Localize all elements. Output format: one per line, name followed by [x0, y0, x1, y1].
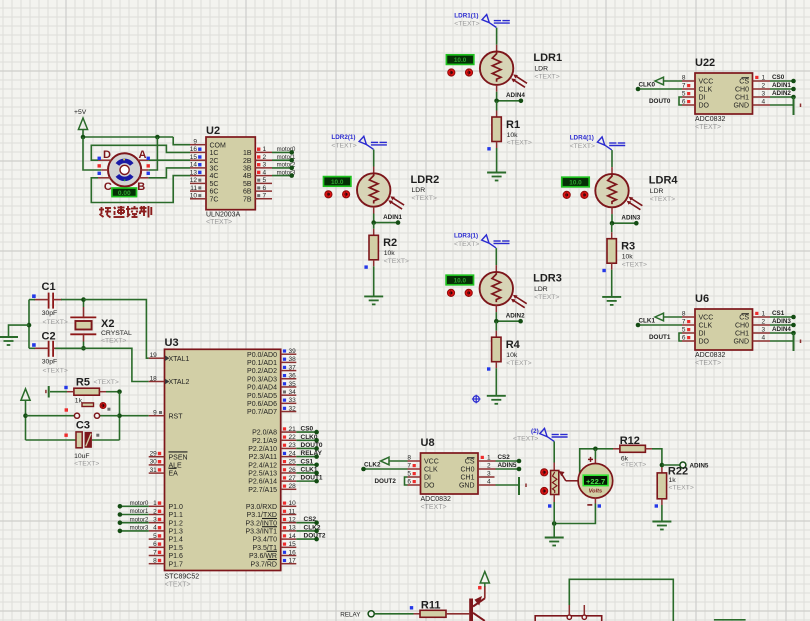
- voltmeter minus sign: [587, 504, 592, 506]
- svg-text:CLK: CLK: [699, 87, 713, 94]
- svg-text:<TEXT>: <TEXT>: [101, 337, 126, 344]
- svg-text:38: 38: [289, 356, 297, 363]
- net label motor1 at U3: [130, 509, 149, 515]
- C2 value 30pF: [42, 359, 58, 366]
- C3 text placeholder: [74, 461, 99, 468]
- svg-text:LDR1: LDR1: [533, 52, 562, 64]
- resistor R3: [607, 239, 616, 264]
- svg-text:26: 26: [289, 467, 297, 474]
- svg-text:5: 5: [153, 533, 157, 540]
- svg-text:36: 36: [289, 373, 297, 380]
- svg-text:1: 1: [153, 500, 157, 507]
- svg-text:ADC0832: ADC0832: [695, 116, 725, 123]
- net label DOUT0 at U3: [301, 442, 323, 449]
- wire U2 4B to net motor3: [272, 175, 292, 177]
- wire +5V to motor left center-tap: [83, 137, 101, 170]
- label U6: [695, 293, 709, 305]
- wire U2 3B to net motor2: [272, 167, 292, 169]
- svg-text:<TEXT>: <TEXT>: [331, 142, 356, 149]
- svg-text:LDR3(1): LDR3(1): [454, 233, 478, 240]
- U8 left pin squares: [413, 464, 416, 483]
- chip U3 STC89C52 body: [165, 349, 281, 570]
- wire node ADIN2: [496, 320, 520, 322]
- wire U3 P2.3 to net RELAY: [296, 456, 316, 458]
- svg-text:1: 1: [762, 75, 766, 82]
- transistor Q1: [469, 586, 485, 621]
- label U2: [206, 125, 220, 137]
- LDR3 type label: [534, 286, 548, 293]
- C2 blue square: [32, 343, 36, 347]
- svg-text:CS1: CS1: [772, 310, 785, 317]
- wire R11 to Q1 base: [446, 613, 469, 615]
- R3 blue square: [602, 269, 605, 272]
- svg-text:CLK0: CLK0: [639, 82, 656, 89]
- LDR2 text placeholder: [412, 195, 437, 202]
- label R4: [506, 339, 521, 351]
- wire U3 P2.6 to net DOUT1: [296, 480, 316, 482]
- wire motor C phase to U2 4C: [91, 176, 190, 203]
- svg-text:5C: 5C: [210, 181, 219, 188]
- svg-text:34: 34: [289, 389, 297, 396]
- svg-text:CH0: CH0: [460, 467, 474, 474]
- wire U3 P3.2 to net CS2: [296, 522, 316, 524]
- R4 blue square: [487, 367, 490, 370]
- resistor R1: [492, 117, 501, 142]
- svg-text:CS: CS: [739, 79, 749, 86]
- label LDR1: [533, 52, 562, 64]
- svg-text:R1: R1: [506, 119, 520, 131]
- svg-text:LDR: LDR: [534, 65, 548, 72]
- U2 left pin stubs: [190, 145, 206, 199]
- wire rail to U2 COM pin 9: [173, 137, 190, 145]
- wire U3 P2.2 to net DOUT0: [296, 447, 316, 449]
- probe text placeholder LDR2: [331, 142, 356, 149]
- svg-text:P3.3/INT1: P3.3/INT1: [245, 529, 277, 536]
- resistor R4: [492, 337, 501, 362]
- U3 left pin squares: [158, 411, 162, 562]
- svg-text:PSEN: PSEN: [169, 454, 188, 461]
- U8 pin 1 square: [481, 456, 484, 459]
- svg-text:5: 5: [682, 91, 686, 98]
- net label CS2: [498, 454, 511, 461]
- push button reset: [26, 403, 120, 418]
- svg-text:33: 33: [289, 397, 297, 404]
- RV1 wiper arrow: [559, 471, 580, 481]
- svg-text:13: 13: [190, 169, 198, 176]
- svg-text:39: 39: [289, 348, 297, 355]
- svg-text:25: 25: [289, 459, 297, 466]
- U6 text placeholder: [695, 360, 721, 367]
- wire to ADIN5 terminal: [662, 464, 680, 466]
- junction pot bottom: [552, 521, 557, 526]
- ground under R22: [652, 522, 671, 530]
- net label ADIN4: [506, 92, 525, 99]
- svg-text:LDR1(1): LDR1(1): [454, 12, 478, 19]
- svg-text:DOUT1: DOUT1: [301, 475, 323, 482]
- svg-text:10.0: 10.0: [454, 278, 467, 285]
- svg-text:Volts: Volts: [589, 489, 602, 495]
- wire U8 DI-DO loop net DOUT2: [405, 477, 408, 485]
- svg-text:LDR: LDR: [412, 187, 426, 194]
- wire R4 to ground: [495, 362, 497, 396]
- U3 XTAL clock markers: [165, 355, 170, 384]
- LDR 2 photoresistor: [357, 173, 390, 206]
- wire to resistor R2: [373, 223, 375, 236]
- svg-text:16: 16: [190, 146, 198, 153]
- svg-text:VCC: VCC: [699, 315, 714, 322]
- net label motor2: [277, 163, 296, 169]
- svg-text:C3: C3: [76, 420, 90, 432]
- net label RELAY at U3: [301, 450, 323, 457]
- svg-text:R5: R5: [76, 377, 90, 389]
- wire net CS1: [770, 316, 794, 318]
- U8 right pin stubs: [478, 461, 496, 485]
- wire XTAL2 net: [55, 348, 149, 381]
- C3 value 10uF: [74, 453, 90, 460]
- svg-text:U8: U8: [421, 437, 435, 449]
- R3 value: [622, 254, 634, 261]
- R5 text placeholder: [94, 379, 119, 386]
- svg-text:18: 18: [150, 375, 158, 382]
- wire to resistor R1: [496, 101, 498, 117]
- wire node ADIN3: [612, 222, 636, 224]
- ground under R1: [487, 173, 506, 181]
- U6 left pin numbers: [682, 311, 686, 342]
- wire R1 to ground: [496, 142, 498, 173]
- U6 left pin squares: [687, 320, 690, 339]
- RV1 adjust buttons: [541, 469, 548, 495]
- junction net CS2 at U3: [314, 520, 319, 525]
- origin marker near LDR3 ground: [472, 395, 481, 404]
- label U8: [421, 437, 435, 449]
- wire U8 GND: [496, 484, 520, 486]
- wire probe to LDR3: [495, 248, 497, 272]
- svg-text:GND: GND: [733, 103, 749, 110]
- wire net ADIN4: [770, 332, 794, 334]
- LDR1 text placeholder: [534, 73, 559, 80]
- wire bar to R5: [50, 391, 74, 393]
- U6 right pin names: [733, 314, 749, 346]
- wire U3 P2.0 to net CS0: [296, 431, 316, 433]
- svg-text:P0.3/AD3: P0.3/AD3: [247, 376, 277, 383]
- U3 right pin stubs: [281, 354, 297, 564]
- junction motor3 at U3: [118, 529, 123, 534]
- svg-text:ADIN2: ADIN2: [506, 313, 525, 320]
- svg-text:1B: 1B: [243, 150, 252, 157]
- svg-text:10k: 10k: [622, 254, 634, 261]
- svg-text:4: 4: [263, 169, 267, 176]
- svg-text:RELAY: RELAY: [340, 612, 361, 619]
- svg-text:1: 1: [263, 146, 267, 153]
- svg-text:U3: U3: [165, 337, 179, 349]
- net label CS2 at U3: [304, 516, 317, 523]
- svg-text:10k: 10k: [506, 352, 518, 359]
- svg-text:CLK2: CLK2: [364, 462, 381, 469]
- probe LDR2(1): [359, 136, 387, 149]
- wire voltmeter top: [594, 449, 596, 465]
- label ADC0832 U22: [695, 116, 725, 123]
- svg-text:P3.7/RD: P3.7/RD: [251, 561, 277, 568]
- label C2: [42, 331, 56, 343]
- U3 right pin names: [245, 352, 277, 569]
- svg-text:C2: C2: [42, 331, 56, 343]
- LDR1 type label: [534, 65, 548, 72]
- svg-text:4B: 4B: [243, 173, 252, 180]
- label LDR3: [533, 273, 562, 285]
- probe (2): [540, 428, 568, 441]
- R4 text placeholder: [506, 360, 531, 367]
- svg-text:<TEXT>: <TEXT>: [43, 319, 68, 326]
- capacitor C2: [29, 341, 84, 357]
- R1 blue square: [487, 147, 490, 150]
- net label CLK1 at U3: [301, 466, 318, 473]
- wire probe to LDR2: [373, 150, 375, 174]
- svg-text:2B: 2B: [243, 158, 252, 165]
- LDR4 light arrows: [627, 197, 643, 210]
- label C1: [42, 281, 56, 293]
- R1 value: [507, 132, 519, 139]
- LDR3 light arrows: [511, 295, 527, 308]
- C3 squares: [64, 434, 99, 437]
- wire LDR3 to node ADIN2: [495, 305, 497, 321]
- R12 text placeholder: [621, 462, 646, 469]
- resistor R2: [369, 235, 378, 259]
- junction CLK0: [636, 87, 641, 92]
- svg-text:6: 6: [407, 479, 411, 486]
- junction CLK2: [361, 467, 366, 472]
- svg-text:RST: RST: [169, 413, 184, 420]
- svg-text:6C: 6C: [210, 189, 219, 196]
- svg-text:DO: DO: [424, 483, 435, 490]
- svg-text:P2.0/A8: P2.0/A8: [252, 430, 277, 437]
- svg-text:CH1: CH1: [735, 331, 749, 338]
- U22 right pin numbers: [762, 75, 766, 106]
- wire net ADIN5: [496, 468, 520, 470]
- svg-text:<TEXT>: <TEXT>: [621, 462, 646, 469]
- junction X2 top: [81, 297, 86, 302]
- svg-text:2: 2: [263, 154, 267, 161]
- junction ADIN2 left: [494, 319, 499, 324]
- label LDR3(1): [454, 233, 478, 240]
- svg-text:P1.2: P1.2: [169, 520, 184, 527]
- wire U8 VCC: [389, 460, 408, 462]
- svg-text:P0.6/AD6: P0.6/AD6: [247, 401, 277, 408]
- junction reset left: [23, 413, 28, 418]
- wire U3 P3.3 to net CLK2: [296, 530, 316, 532]
- svg-text:35: 35: [289, 381, 297, 388]
- wire U22 DI-DO loop net DOUT0: [679, 97, 682, 105]
- label U3: [165, 337, 179, 349]
- U22 left pin numbers: [682, 75, 686, 106]
- net label CLK1: [639, 318, 656, 325]
- svg-text:A: A: [139, 149, 147, 161]
- net label ADIN5 right: [690, 463, 709, 470]
- ground under potentiometer: [545, 538, 564, 546]
- LDR1 value display 10.0: [446, 55, 473, 65]
- svg-text:2: 2: [762, 319, 766, 326]
- net label ADIN2: [772, 90, 791, 97]
- svg-text:12: 12: [289, 517, 297, 524]
- label 转速控制 (speed control): [99, 206, 151, 218]
- svg-text:3: 3: [762, 327, 766, 334]
- svg-text:P0.7/AD7: P0.7/AD7: [247, 409, 277, 416]
- svg-text:ADIN5: ADIN5: [690, 463, 709, 470]
- svg-text:ADIN4: ADIN4: [772, 326, 791, 333]
- svg-text:<TEXT>: <TEXT>: [534, 294, 559, 301]
- svg-text:7B: 7B: [243, 196, 252, 203]
- junction RST node: [117, 413, 122, 418]
- R22 value 1k: [669, 477, 677, 484]
- svg-text:21: 21: [289, 426, 297, 433]
- wire R2 to ground: [373, 260, 375, 297]
- svg-text:COM: COM: [210, 142, 227, 149]
- wire U3 P3.4 to net DOUT2: [296, 538, 316, 540]
- svg-text:2C: 2C: [210, 158, 219, 165]
- R3 text placeholder: [622, 261, 647, 268]
- svg-text:10k: 10k: [384, 250, 396, 257]
- svg-text:motor0: motor0: [130, 501, 149, 507]
- svg-text:29: 29: [150, 451, 158, 458]
- R2 value: [384, 250, 396, 257]
- svg-text:14: 14: [289, 533, 297, 540]
- svg-text:ADIN5: ADIN5: [498, 462, 517, 469]
- power arrow at Q1 collector: [480, 572, 489, 587]
- wire LDR1 to node ADIN4: [496, 85, 498, 101]
- wire net CS0: [770, 80, 794, 82]
- chip U6 ADC0832 body: [695, 309, 753, 350]
- svg-text:P0.0/AD0: P0.0/AD0: [247, 352, 277, 359]
- label R1: [506, 119, 520, 131]
- svg-text:<TEXT>: <TEXT>: [507, 140, 532, 147]
- svg-text:GND: GND: [733, 339, 749, 346]
- wire motor A phase to U2 2C: [148, 159, 190, 161]
- wire net CS2: [496, 460, 520, 462]
- probe LDR1(1): [482, 15, 510, 28]
- svg-text:CH1: CH1: [460, 475, 474, 482]
- junction net CLK1 at U3: [314, 471, 319, 476]
- svg-text:ADIN3: ADIN3: [621, 215, 640, 222]
- label U22: [695, 57, 715, 69]
- svg-text:8: 8: [682, 311, 686, 318]
- junction CS2: [517, 459, 522, 464]
- terminal RELAY: [368, 611, 374, 617]
- svg-text:<TEXT>: <TEXT>: [506, 360, 531, 367]
- junction ADIN4 right: [519, 99, 524, 104]
- U8 left pin stubs: [408, 461, 421, 485]
- svg-text:P2.7/A15: P2.7/A15: [248, 487, 277, 494]
- net label ADIN1: [772, 82, 791, 89]
- terminal ADIN5: [680, 462, 686, 468]
- svg-text:13: 13: [289, 525, 297, 532]
- svg-text:D: D: [103, 149, 111, 161]
- svg-text:U6: U6: [695, 293, 709, 305]
- wire probe to LDR4: [611, 150, 613, 174]
- net label DOUT1 at U3: [301, 475, 323, 482]
- U6 VCC arrow terminal: [655, 313, 664, 321]
- svg-text:5: 5: [682, 327, 686, 334]
- svg-text:DI: DI: [699, 95, 706, 102]
- wire R3 to ground: [611, 263, 613, 297]
- svg-text:P1.7: P1.7: [169, 561, 184, 568]
- svg-text:CS: CS: [739, 315, 749, 322]
- svg-text:16: 16: [289, 549, 297, 556]
- resistor R5: [74, 388, 100, 395]
- svg-text:2: 2: [487, 463, 491, 470]
- svg-text:P1.6: P1.6: [169, 553, 184, 560]
- svg-text:VCC: VCC: [424, 459, 439, 466]
- junction net DOUT0 at U3: [314, 446, 319, 451]
- svg-text:3C: 3C: [210, 166, 219, 173]
- wire voltmeter bottom: [554, 498, 595, 523]
- U22 pin 1 square: [755, 76, 758, 79]
- net label motor2 at U3: [130, 517, 149, 523]
- U3 text placeholder: [165, 582, 191, 589]
- net label CS0 at U3: [301, 426, 314, 433]
- net label motor0 at U3: [130, 501, 149, 507]
- svg-text:7: 7: [682, 319, 686, 326]
- net label ADIN3: [621, 215, 640, 222]
- svg-text:<TEXT>: <TEXT>: [74, 461, 99, 468]
- net label ADIN1: [383, 214, 402, 221]
- svg-text:U2: U2: [206, 125, 220, 137]
- junction CS0: [791, 79, 796, 84]
- svg-text:10uF: 10uF: [74, 453, 90, 460]
- svg-text:P2.3/A11: P2.3/A11: [249, 454, 277, 461]
- LDR4 value display 10.0: [562, 177, 589, 187]
- net label RELAY bottom: [340, 612, 361, 619]
- net label ADIN5: [498, 462, 517, 469]
- LDR3 adjust buttons: [447, 289, 472, 296]
- svg-text:10.0: 10.0: [331, 179, 344, 186]
- svg-text:C: C: [104, 181, 112, 193]
- svg-text:ADIN1: ADIN1: [383, 214, 402, 221]
- R22 text placeholder: [669, 485, 694, 492]
- U8 right pin names: [459, 458, 475, 490]
- svg-text:LDR: LDR: [650, 188, 664, 195]
- wire node ADIN1: [374, 222, 398, 224]
- LDR 4 photoresistor: [595, 174, 628, 207]
- junction ADIN5 node: [660, 463, 665, 468]
- U2 right pin stubs: [255, 152, 272, 198]
- svg-text:GND: GND: [459, 483, 475, 490]
- svg-text:<TEXT>: <TEXT>: [669, 485, 694, 492]
- svg-text:3: 3: [153, 517, 157, 524]
- wire U6 DI-DO loop net DOUT1: [679, 333, 682, 341]
- junction ADIN1 right: [396, 220, 401, 225]
- svg-text:7: 7: [407, 463, 411, 470]
- wire +5V to motor right center-tap: [148, 137, 157, 170]
- net label DOUT1: [649, 334, 671, 341]
- net label CS0: [772, 74, 785, 81]
- svg-text:4C: 4C: [210, 173, 219, 180]
- U3 left pin numbers: [150, 352, 158, 565]
- LDR4 adjust buttons: [563, 191, 588, 198]
- svg-text:7C: 7C: [210, 196, 219, 203]
- svg-text:ADIN2: ADIN2: [772, 90, 791, 97]
- U22 ground bar terminal: [794, 97, 801, 115]
- svg-text:R4: R4: [506, 339, 521, 351]
- U22 left pin names: [699, 79, 714, 110]
- net label DOUT2: [375, 478, 397, 485]
- LDR2 value display 10.0: [324, 177, 351, 187]
- R2 blue square: [364, 265, 367, 268]
- svg-text:10: 10: [190, 193, 198, 200]
- LDR2 light arrows: [388, 196, 404, 209]
- svg-text:11: 11: [190, 185, 197, 192]
- LDR 3 photoresistor: [480, 272, 513, 305]
- chip U22 ADC0832 body: [695, 73, 753, 114]
- net label CLK2: [364, 462, 381, 469]
